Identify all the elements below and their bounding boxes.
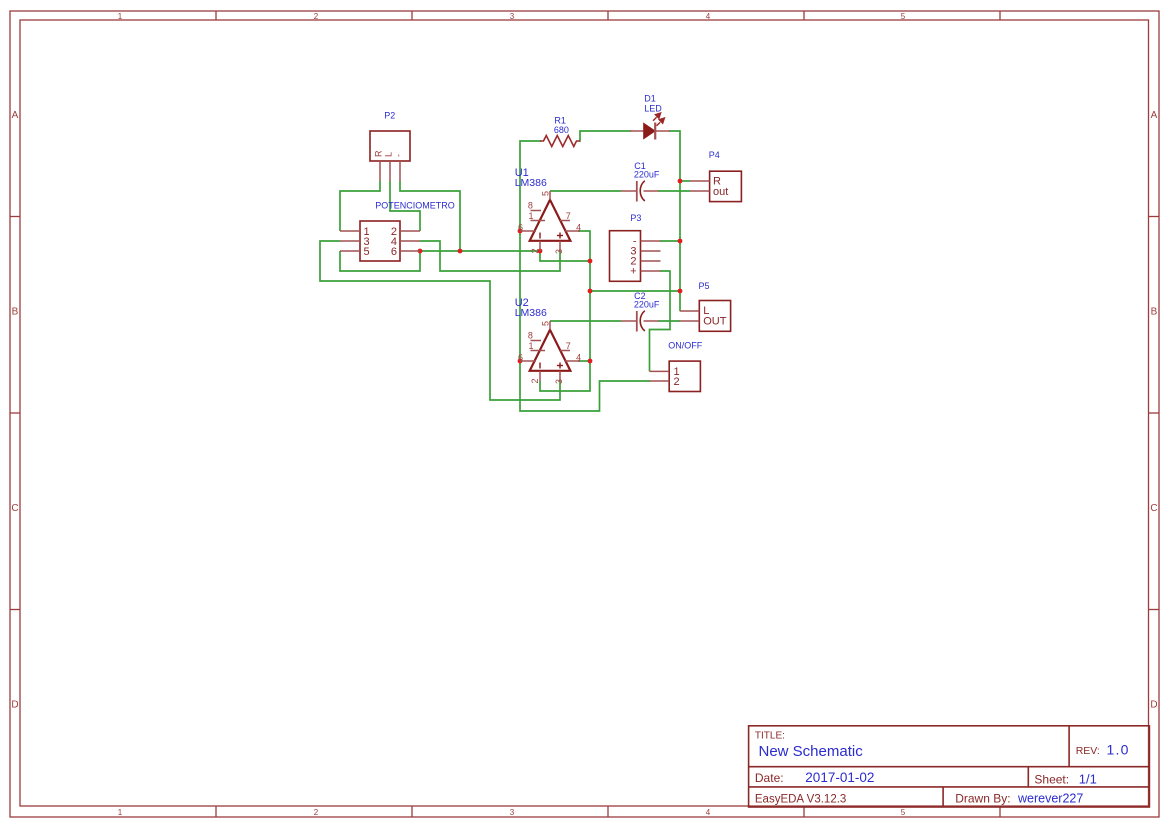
svg-text:OUT: OUT bbox=[703, 316, 727, 328]
svg-text:werever227: werever227 bbox=[1017, 792, 1083, 806]
svg-text:3: 3 bbox=[554, 249, 564, 254]
junction U2 pin6 (520,361) bbox=[518, 359, 523, 364]
svg-text:1.0: 1.0 bbox=[1107, 741, 1130, 757]
connector P4 bbox=[690, 150, 741, 201]
svg-text:C: C bbox=[11, 503, 18, 514]
svg-text:LED: LED bbox=[644, 104, 662, 114]
wire R1 right to LED anode bbox=[579, 131, 631, 141]
svg-text:7: 7 bbox=[566, 341, 571, 351]
wire bus x=590 to bus x=680 at y=291 bbox=[590, 290, 680, 292]
resistor R1 bbox=[540, 115, 580, 146]
junction U1 pin2 (540,251) bbox=[538, 249, 543, 254]
wire C2 to P5 pin OUT bbox=[658, 320, 680, 322]
svg-text:P2: P2 bbox=[384, 110, 395, 120]
svg-text:B: B bbox=[1151, 307, 1158, 318]
connector P3 bbox=[610, 213, 661, 281]
svg-text:2: 2 bbox=[674, 376, 680, 388]
svg-text:-: - bbox=[394, 154, 404, 157]
wire U2 pin 4 stub join bbox=[578, 360, 590, 362]
wire C1 to P4 pin out bbox=[658, 190, 690, 192]
svg-text:5: 5 bbox=[541, 191, 551, 196]
wire P3 pin plus to ON/OFF pin 1 bbox=[650, 271, 671, 371]
svg-text:ON/OFF: ON/OFF bbox=[668, 341, 702, 351]
svg-text:LM386: LM386 bbox=[515, 177, 547, 189]
svg-text:8: 8 bbox=[528, 201, 533, 211]
svg-text:P3: P3 bbox=[630, 213, 641, 223]
potentiometer 6-pin body bbox=[340, 221, 420, 261]
wire P2 pin L to pot pin 2 bbox=[390, 181, 420, 231]
svg-text:6: 6 bbox=[518, 222, 523, 232]
op-amp U1 LM386 bbox=[515, 167, 581, 254]
svg-text:A: A bbox=[1151, 110, 1158, 121]
svg-text:3: 3 bbox=[510, 12, 515, 21]
svg-text:4: 4 bbox=[576, 222, 581, 232]
svg-text:P5: P5 bbox=[699, 281, 710, 291]
svg-text:4: 4 bbox=[706, 808, 711, 817]
wire P2 pin minus to node at (460,251) bbox=[400, 181, 460, 251]
svg-text:D: D bbox=[11, 700, 18, 711]
svg-text:2017-01-02: 2017-01-02 bbox=[805, 770, 874, 785]
svg-text:6: 6 bbox=[518, 352, 523, 362]
svg-text:8: 8 bbox=[528, 331, 533, 341]
wire pot pin 5 loop to pin 6 node bbox=[340, 251, 420, 271]
svg-text:A: A bbox=[12, 110, 19, 121]
svg-text:5: 5 bbox=[364, 246, 370, 258]
svg-text:2: 2 bbox=[530, 378, 540, 383]
svg-text:1/1: 1/1 bbox=[1079, 772, 1097, 787]
svg-text:1: 1 bbox=[118, 808, 123, 817]
svg-text:C: C bbox=[1150, 503, 1157, 514]
svg-text:680: 680 bbox=[554, 125, 569, 135]
svg-text:Drawn By:: Drawn By: bbox=[955, 791, 1010, 805]
wire U2 pin 5 to C2 bbox=[550, 320, 621, 322]
capacitor C2 220uF bbox=[621, 291, 660, 331]
svg-text:1: 1 bbox=[529, 341, 534, 351]
svg-text:220uF: 220uF bbox=[634, 170, 660, 180]
svg-text:+: + bbox=[630, 266, 636, 278]
wire U1 pin 2 to vertical bus x=590 bbox=[540, 251, 590, 261]
svg-text:2: 2 bbox=[530, 248, 540, 253]
svg-text:6: 6 bbox=[391, 246, 397, 258]
wire LED cathode to vertical bus x=680 down to P5 pin L bbox=[669, 131, 680, 311]
wire net y=251 from pin6 node to U1 pin 2 bbox=[420, 250, 540, 252]
junction pot pin6 (420,251) bbox=[418, 249, 423, 254]
svg-text:REV:: REV: bbox=[1076, 745, 1100, 757]
svg-text:Date:: Date: bbox=[755, 771, 784, 785]
svg-text:3: 3 bbox=[510, 808, 515, 817]
capacitor C1 220uF bbox=[621, 161, 660, 201]
svg-text:B: B bbox=[12, 307, 19, 318]
junction (590,291) bbox=[588, 289, 593, 294]
svg-text:7: 7 bbox=[566, 211, 571, 221]
junction (590,261) bbox=[588, 259, 593, 264]
junction (460,251) bbox=[458, 249, 463, 254]
svg-text:3: 3 bbox=[554, 379, 564, 384]
junction (680,291) bbox=[678, 289, 683, 294]
svg-text:out: out bbox=[713, 186, 728, 198]
junction U1 pin6 (520,231) bbox=[518, 229, 523, 234]
svg-text:P4: P4 bbox=[709, 150, 720, 160]
svg-text:5: 5 bbox=[541, 321, 551, 326]
svg-text:2: 2 bbox=[314, 808, 319, 817]
wire P2 pin R to pot pin 1 bbox=[340, 181, 380, 231]
connector ON/OFF bbox=[650, 341, 703, 392]
svg-text:R1: R1 bbox=[554, 115, 566, 125]
svg-text:D: D bbox=[1150, 700, 1157, 711]
LED D1 bbox=[630, 94, 670, 140]
svg-text:4: 4 bbox=[706, 12, 711, 21]
svg-text:POTENCIOMETRO: POTENCIOMETRO bbox=[375, 201, 455, 211]
wire U1 pin 4 bus down to U2 pin 2 bbox=[540, 231, 590, 391]
connector P5 bbox=[680, 281, 731, 331]
svg-text:EasyEDA V3.12.3: EasyEDA V3.12.3 bbox=[755, 793, 846, 805]
title block bbox=[749, 726, 1150, 807]
svg-text:5: 5 bbox=[901, 808, 906, 817]
wire pot pin 3 to U2 pin 3 bbox=[320, 241, 560, 400]
svg-text:Sheet:: Sheet: bbox=[1034, 773, 1069, 787]
svg-text:1: 1 bbox=[529, 211, 534, 221]
svg-text:R: R bbox=[374, 150, 384, 157]
wire U1 pin 5 to C1 bbox=[550, 190, 621, 192]
wire pot pin 4 to U1 pin 3 bbox=[420, 241, 560, 271]
svg-text:5: 5 bbox=[901, 12, 906, 21]
svg-text:New Schematic: New Schematic bbox=[759, 743, 864, 760]
junction P4 R (680,181) bbox=[678, 179, 683, 184]
svg-text:220uF: 220uF bbox=[634, 300, 660, 310]
junction P3 minus (680,241) bbox=[678, 239, 683, 244]
svg-text:TITLE:: TITLE: bbox=[755, 731, 785, 742]
svg-text:D1: D1 bbox=[644, 94, 656, 104]
svg-text:2: 2 bbox=[314, 12, 319, 21]
svg-text:LM386: LM386 bbox=[515, 307, 547, 319]
op-amp U2 LM386 bbox=[515, 297, 581, 384]
wire node to P4 pin R bbox=[680, 180, 690, 182]
connector P2 bbox=[370, 110, 410, 181]
svg-text:L: L bbox=[384, 152, 394, 157]
svg-text:1: 1 bbox=[118, 12, 123, 21]
wire P3 pin minus to bus x=680 bbox=[660, 240, 680, 242]
wire R1 left / vertical bus x=520 down to ON/OFF pin 2 bbox=[520, 141, 650, 411]
svg-text:4: 4 bbox=[576, 352, 581, 362]
junction U2 pin4 (590,361) bbox=[588, 359, 593, 364]
